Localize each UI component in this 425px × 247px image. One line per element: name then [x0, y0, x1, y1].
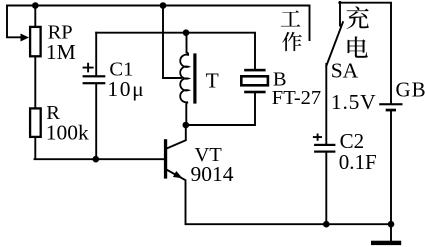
svg-text:1M: 1M: [46, 40, 76, 64]
svg-text:10μ: 10μ: [107, 77, 145, 101]
svg-text:1.5V: 1.5V: [331, 90, 377, 114]
svg-text:SA: SA: [331, 58, 359, 82]
svg-text:T: T: [206, 68, 219, 92]
svg-text:GB: GB: [396, 78, 425, 102]
svg-text:FT-27: FT-27: [272, 87, 321, 109]
svg-text:9014: 9014: [191, 162, 234, 186]
svg-text:100k: 100k: [46, 121, 89, 145]
svg-text:0.1F: 0.1F: [339, 150, 377, 174]
